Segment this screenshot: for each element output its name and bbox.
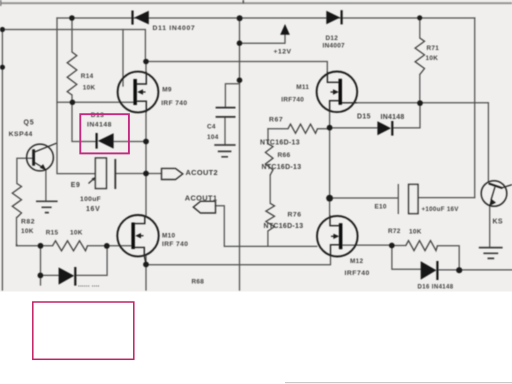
- svg-text:R67: R67: [269, 117, 283, 124]
- svg-text:D16 IN4148: D16 IN4148: [418, 284, 454, 290]
- svg-text:+100uF 16V: +100uF 16V: [422, 206, 460, 213]
- svg-text:+12V: +12V: [274, 48, 292, 55]
- svg-text:M11: M11: [296, 84, 309, 91]
- svg-text:16V: 16V: [86, 206, 100, 213]
- svg-text:Q5: Q5: [24, 120, 35, 127]
- svg-text:10K: 10K: [21, 228, 34, 235]
- svg-text:R76: R76: [288, 212, 302, 219]
- svg-text:R71: R71: [427, 45, 440, 52]
- svg-text:IRF 740: IRF 740: [161, 100, 187, 107]
- svg-text:100uF: 100uF: [80, 196, 101, 203]
- svg-text:R68: R68: [192, 279, 205, 286]
- svg-text:R14: R14: [81, 73, 94, 80]
- svg-text:NTC16D-13: NTC16D-13: [264, 223, 304, 230]
- svg-text:NTC16D-13: NTC16D-13: [260, 140, 300, 147]
- svg-text:D13: D13: [91, 112, 104, 119]
- svg-text:IN4007: IN4007: [323, 42, 346, 49]
- svg-text:10K: 10K: [409, 229, 422, 236]
- svg-text:R72: R72: [388, 228, 401, 235]
- svg-text:NTC16D-13: NTC16D-13: [262, 164, 302, 171]
- svg-text:M12: M12: [350, 258, 363, 265]
- svg-text:KSP44: KSP44: [9, 131, 33, 138]
- svg-text:D11 IN4007: D11 IN4007: [153, 25, 196, 32]
- svg-text:E9: E9: [71, 182, 81, 189]
- svg-text:D12: D12: [326, 35, 339, 42]
- svg-text:IN4148: IN4148: [87, 121, 112, 128]
- svg-text:D15: D15: [357, 114, 371, 121]
- svg-text:IRF740: IRF740: [281, 97, 304, 104]
- svg-text:...... ....: ...... ....: [78, 283, 100, 289]
- svg-text:M9: M9: [162, 86, 172, 93]
- svg-text:M10: M10: [162, 232, 175, 239]
- svg-text:ACOUT2: ACOUT2: [186, 168, 219, 177]
- svg-text:ACOUT1: ACOUT1: [185, 194, 218, 203]
- svg-text:IRF740: IRF740: [345, 270, 370, 277]
- svg-text:104: 104: [207, 134, 219, 141]
- svg-text:R82: R82: [21, 218, 35, 225]
- svg-text:E10: E10: [375, 204, 387, 211]
- svg-text:KS: KS: [493, 219, 503, 226]
- svg-text:IN4148: IN4148: [381, 114, 405, 121]
- svg-text:10K: 10K: [83, 85, 96, 92]
- svg-text:R15: R15: [46, 230, 59, 237]
- svg-text:10K: 10K: [70, 230, 83, 237]
- svg-text:R66: R66: [278, 152, 291, 159]
- svg-text:C4: C4: [207, 123, 216, 130]
- svg-text:10K: 10K: [426, 55, 439, 62]
- svg-text:IRF 740: IRF 740: [162, 241, 188, 248]
